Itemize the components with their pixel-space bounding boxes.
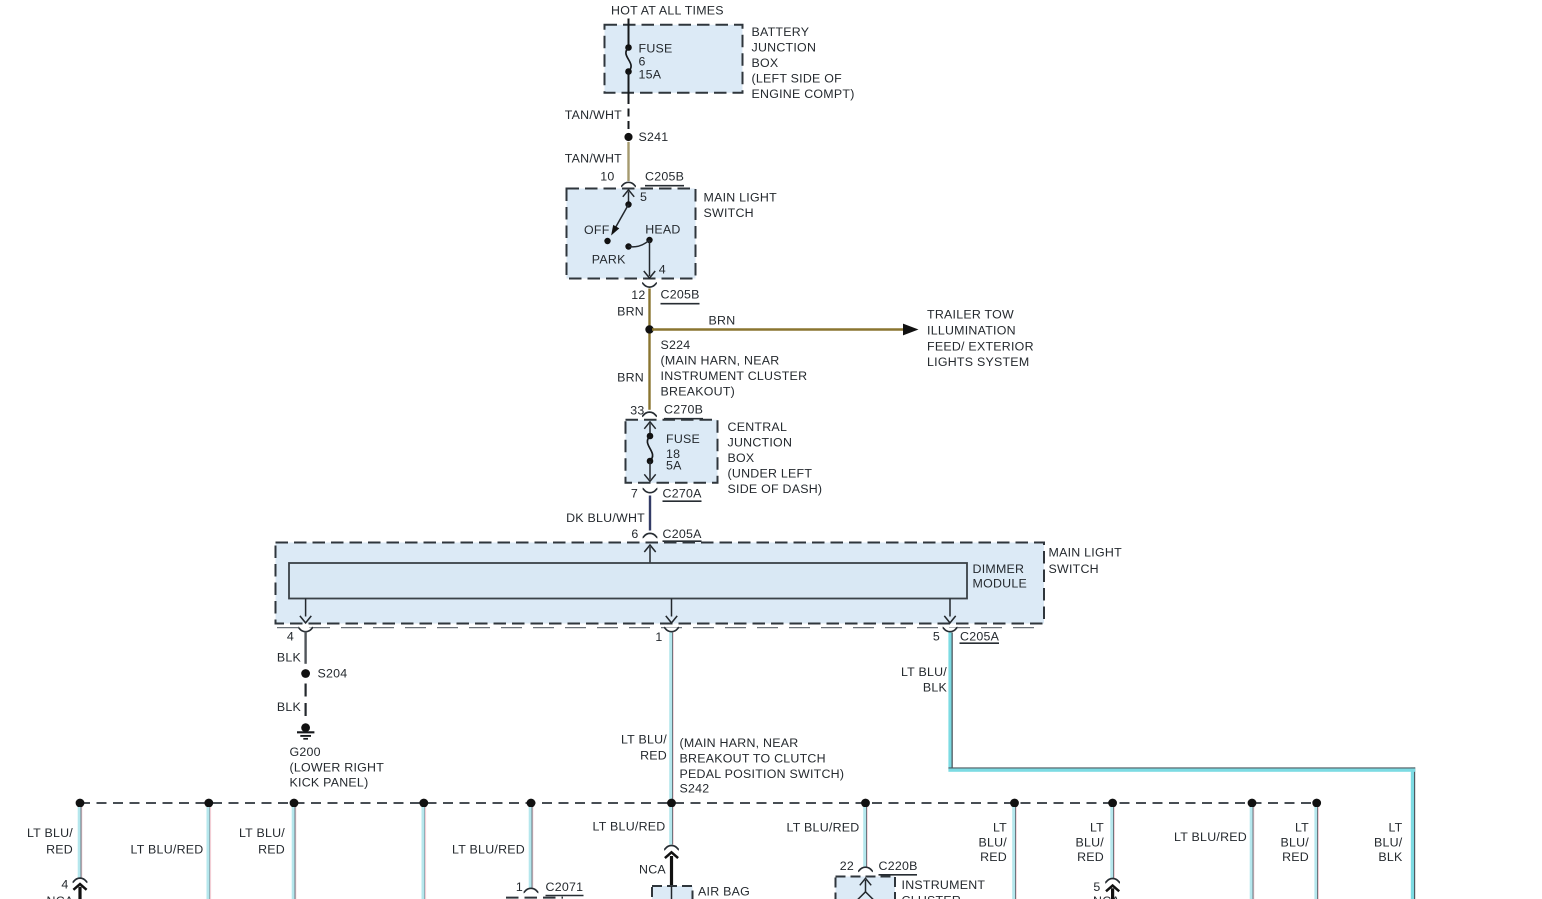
switch arm PARK to HEAD (629, 240, 650, 247)
switch common node (625, 201, 631, 207)
connector row line C205A (277, 627, 1043, 629)
svg-text:C270A: C270A (663, 486, 703, 500)
svg-text:TRAILER TOW: TRAILER TOW (927, 308, 1014, 322)
switch arm to OFF (616, 205, 629, 228)
svg-text:5A: 5A (666, 459, 682, 473)
svg-text:BLU/: BLU/ (978, 835, 1007, 849)
svg-text:KICK PANEL): KICK PANEL) (290, 776, 369, 790)
svg-text:FEED/ EXTERIOR: FEED/ EXTERIOR (927, 339, 1034, 353)
wire 7 LT BLU/RED (863, 807, 868, 867)
svg-text:MODULE: MODULE (973, 577, 1028, 591)
svg-text:S224: S224 (661, 338, 691, 352)
svg-text:LT: LT (1090, 820, 1104, 834)
svg-text:NCA: NCA (639, 863, 666, 877)
svg-text:BLK: BLK (277, 651, 302, 665)
connector NCA wire 9 (1105, 879, 1120, 883)
wire 2 LT BLU/RED (207, 807, 212, 899)
svg-text:C220B: C220B (879, 859, 918, 873)
dashed box edge below C2071 (506, 897, 563, 899)
svg-text:INSTRUMENT: INSTRUMENT (902, 878, 986, 892)
svg-text:(MAIN HARN, NEAR: (MAIN HARN, NEAR (661, 354, 780, 368)
svg-text:4: 4 (287, 630, 294, 644)
splice S204 (301, 669, 310, 678)
svg-text:6: 6 (631, 527, 638, 541)
HEAD contact (646, 237, 652, 243)
svg-text:NCA: NCA (1093, 894, 1120, 899)
connector C270B pin 33 (642, 412, 657, 416)
main light switch box (567, 189, 696, 279)
wire 10 LT BLU/RED (1250, 807, 1255, 899)
svg-text:SIDE OF DASH): SIDE OF DASH) (728, 482, 823, 496)
svg-text:(MAIN HARN, NEAR: (MAIN HARN, NEAR (680, 736, 799, 750)
svg-text:LT: LT (1295, 820, 1309, 834)
svg-text:LT BLU/RED: LT BLU/RED (1174, 830, 1247, 844)
svg-text:JUNCTION: JUNCTION (752, 41, 817, 55)
svg-text:DIMMER: DIMMER (973, 562, 1025, 576)
svg-text:LT BLU/: LT BLU/ (239, 826, 285, 840)
svg-text:JUNCTION: JUNCTION (728, 436, 793, 450)
connector C220B pin 22 (858, 867, 873, 871)
svg-text:C205A: C205A (663, 527, 703, 541)
fuse F18 (649, 424, 651, 437)
svg-text:SWITCH: SWITCH (704, 206, 754, 220)
svg-text:LT BLU/: LT BLU/ (901, 665, 947, 679)
svg-text:6: 6 (639, 54, 646, 68)
wire BRN (648, 289, 650, 326)
svg-text:BOX: BOX (728, 451, 755, 465)
wire LT BLU/RED pin 1 to splice S242 (669, 633, 674, 804)
svg-text:BLU/: BLU/ (1075, 835, 1104, 849)
svg-text:LT BLU/: LT BLU/ (27, 826, 73, 840)
svg-text:LT BLU/: LT BLU/ (621, 732, 667, 746)
wire BRN to trailer tow (652, 328, 904, 331)
svg-text:LT BLU/RED: LT BLU/RED (131, 842, 204, 856)
svg-text:PARK: PARK (592, 253, 626, 267)
svg-text:G200: G200 (290, 745, 321, 759)
svg-text:CLUSTER: CLUSTER (902, 894, 962, 899)
connector C205A pin 1 (664, 628, 679, 632)
wire TAN (627, 142, 629, 181)
svg-text:BRN: BRN (709, 313, 736, 327)
svg-text:RED: RED (1077, 850, 1104, 864)
svg-text:INSTRUMENT CLUSTER: INSTRUMENT CLUSTER (661, 369, 808, 383)
svg-text:4: 4 (61, 878, 68, 892)
svg-text:(LOWER RIGHT: (LOWER RIGHT (290, 760, 385, 774)
svg-text:BLK: BLK (277, 700, 302, 714)
air bag box (652, 886, 693, 899)
svg-text:BLU/: BLU/ (1374, 835, 1403, 849)
wire stub above fuse (628, 19, 630, 48)
battery junction box (605, 25, 743, 93)
svg-text:MAIN LIGHT: MAIN LIGHT (704, 190, 778, 204)
svg-text:HEAD: HEAD (645, 223, 680, 237)
svg-text:BLK: BLK (1378, 850, 1403, 864)
svg-text:LT: LT (1388, 820, 1402, 834)
wire 9 LT BLU/RED (1110, 807, 1115, 879)
svg-text:5: 5 (933, 630, 940, 644)
svg-text:1: 1 (655, 630, 662, 644)
svg-text:10: 10 (600, 169, 614, 183)
switch pin 4 line (649, 240, 651, 276)
connector NCA wire 6 (664, 846, 679, 850)
pin 4 arrow (305, 599, 307, 617)
svg-text:S241: S241 (639, 130, 669, 144)
wire BLK pin 4 (304, 632, 306, 664)
svg-text:BRN: BRN (617, 304, 644, 318)
svg-text:BRN: BRN (617, 370, 644, 384)
wire BLK dashed (305, 684, 307, 720)
svg-text:C205B: C205B (661, 288, 700, 302)
svg-text:RED: RED (980, 850, 1007, 864)
pin 6 arrow into switch (649, 547, 651, 563)
svg-text:LT BLU/RED: LT BLU/RED (452, 842, 525, 856)
svg-text:ENGINE COMPT): ENGINE COMPT) (752, 87, 855, 101)
connector C205B pin 12 (642, 283, 657, 287)
switch pin 5 arrow (628, 192, 630, 205)
svg-text:C270B: C270B (664, 403, 703, 417)
wire 5 LT BLU/RED (529, 807, 534, 888)
svg-text:BLK: BLK (923, 680, 948, 694)
svg-text:BATTERY: BATTERY (752, 25, 810, 39)
svg-text:RED: RED (1282, 850, 1309, 864)
pin 5 arrow (949, 599, 951, 617)
svg-text:RED: RED (46, 842, 73, 856)
wire 4 LT BLU/RED (422, 807, 427, 899)
svg-text:LT BLU/RED: LT BLU/RED (787, 820, 860, 834)
svg-text:15A: 15A (639, 67, 662, 81)
connector C270A pin 7 (643, 489, 658, 493)
wire TAN/WHT dashed (628, 96, 630, 133)
svg-text:1: 1 (516, 880, 523, 894)
svg-text:BOX: BOX (752, 56, 779, 70)
wire LT BLU/BLK pin 5 (948, 633, 952, 770)
OFF contact (604, 238, 610, 244)
wire 8 LT BLU/RED (1012, 807, 1017, 899)
fuse F6 (625, 44, 632, 51)
svg-text:FUSE: FUSE (666, 432, 700, 446)
svg-text:C205B: C205B (645, 170, 684, 184)
main light switch outer box (dimmer) (276, 543, 1045, 624)
svg-text:HOT AT ALL TIMES: HOT AT ALL TIMES (611, 4, 724, 18)
splice S224 (645, 325, 653, 333)
PARK contact (625, 243, 631, 249)
wire 6 LT BLU/RED (S242) (669, 807, 674, 845)
svg-text:PEDAL POSITION SWITCH): PEDAL POSITION SWITCH) (680, 767, 845, 781)
central junction box (626, 420, 718, 483)
splice dots on bus (76, 799, 85, 808)
dimmer module (289, 563, 967, 599)
svg-text:RED: RED (258, 842, 285, 856)
instrument cluster box (836, 877, 896, 899)
svg-text:BREAKOUT): BREAKOUT) (661, 385, 736, 399)
connector C2071 pin 1 (524, 888, 539, 892)
connector C205A pin 4 (298, 628, 313, 632)
svg-text:CENTRAL: CENTRAL (728, 420, 788, 434)
wire DK BLU/WHT (649, 496, 651, 531)
svg-text:NCA: NCA (47, 894, 74, 899)
svg-text:FUSE: FUSE (639, 41, 673, 55)
connector C205B pin 10 (621, 182, 636, 186)
svg-text:TAN/WHT: TAN/WHT (565, 151, 622, 165)
svg-text:(LEFT SIDE OF: (LEFT SIDE OF (752, 72, 843, 86)
ground G200 (301, 723, 310, 732)
wire fuse to box bottom (628, 72, 630, 97)
splice S241 (624, 133, 632, 141)
svg-text:BLU/: BLU/ (1280, 835, 1309, 849)
wire 3 LT BLU/RED (292, 807, 297, 899)
svg-text:BREAKOUT TO CLUTCH: BREAKOUT TO CLUTCH (680, 751, 826, 765)
pin 1 arrow (671, 599, 673, 617)
svg-text:RED: RED (640, 748, 667, 762)
svg-text:LT: LT (993, 820, 1007, 834)
svg-text:DK BLU/WHT: DK BLU/WHT (566, 511, 645, 525)
svg-text:5: 5 (1093, 880, 1100, 894)
wire 11 LT BLU/RED (1314, 807, 1319, 899)
svg-text:MAIN LIGHT: MAIN LIGHT (1049, 546, 1123, 560)
connector C205A pin 6 (643, 533, 658, 537)
svg-text:C2071: C2071 (546, 880, 584, 894)
svg-text:SWITCH: SWITCH (1049, 562, 1099, 576)
svg-text:4: 4 (659, 262, 666, 276)
svg-text:5: 5 (640, 190, 647, 204)
svg-text:S242: S242 (680, 782, 710, 796)
svg-text:S204: S204 (318, 667, 348, 681)
svg-text:LIGHTS SYSTEM: LIGHTS SYSTEM (927, 355, 1029, 369)
svg-text:C205A: C205A (960, 630, 1000, 644)
svg-text:12: 12 (631, 288, 645, 302)
svg-text:ILLUMINATION: ILLUMINATION (927, 324, 1016, 338)
svg-text:TAN/WHT: TAN/WHT (565, 108, 622, 122)
svg-text:AIR BAG: AIR BAG (698, 884, 750, 898)
wire BRN (648, 334, 650, 410)
connector NCA wire 1 (73, 878, 88, 882)
bus dashed wire (80, 802, 1317, 804)
connector C205A pin 5 (943, 628, 958, 632)
svg-text:33: 33 (630, 403, 644, 417)
svg-text:(UNDER LEFT: (UNDER LEFT (728, 467, 813, 481)
svg-text:LT BLU/RED: LT BLU/RED (593, 819, 666, 833)
svg-text:22: 22 (840, 859, 854, 873)
svg-text:OFF: OFF (584, 223, 610, 237)
wire 1 LT BLU/RED (78, 807, 83, 878)
svg-text:7: 7 (631, 487, 638, 501)
